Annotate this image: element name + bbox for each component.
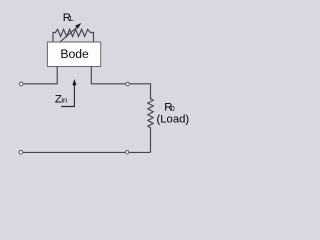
resistor RL (variable, zigzag with leads and stubs to box top)	[53, 29, 94, 42]
svg-text:in: in	[61, 95, 67, 104]
wire: bottom return	[23, 151, 151, 153]
wire: box bottom-right stub down, right to load branch, down to resistor	[91, 67, 150, 100]
label Zin	[55, 93, 67, 105]
wire: box bottom-left stub down and left to input terminal	[23, 67, 57, 84]
svg-text:(Load): (Load)	[157, 113, 190, 125]
svg-text:L: L	[70, 14, 74, 23]
Zin arrow	[61, 79, 77, 107]
resistor R0 (load), vertical zigzag	[148, 99, 153, 153]
node: output terminal top	[126, 82, 130, 86]
svg-text:Bode: Bode	[60, 47, 89, 61]
terminal: input top	[19, 82, 23, 86]
label R0	[164, 102, 174, 114]
terminal: input bottom	[19, 150, 23, 154]
Bode box	[47, 42, 100, 67]
node: output terminal bottom	[125, 150, 129, 154]
svg-text:0: 0	[171, 104, 175, 113]
arrow through RL (variable-resistor diagonal arrow)	[57, 23, 81, 44]
label RL	[63, 12, 74, 24]
